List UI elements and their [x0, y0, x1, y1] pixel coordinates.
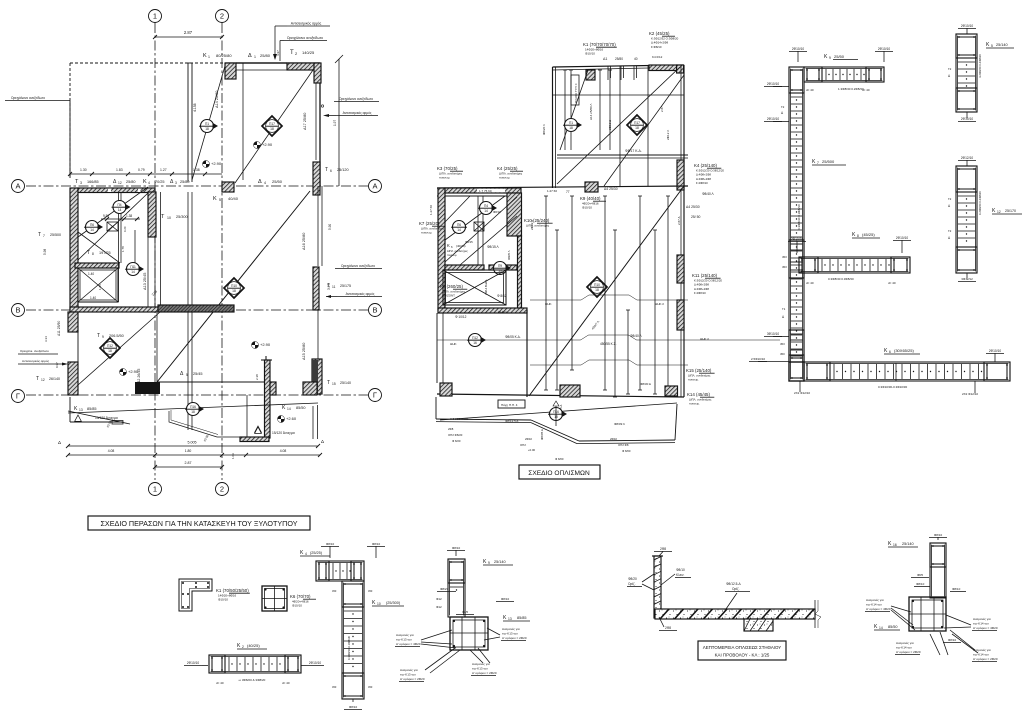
svg-text:2: 2: [242, 645, 244, 649]
svg-text:K14 (45/45): K14 (45/45): [687, 392, 710, 397]
svg-text:0.3Φ10/30-0.3Φ10/30: 0.3Φ10/30-0.3Φ10/30: [878, 385, 907, 389]
svg-text:Αντισεισμικός αρμός: Αντισεισμικός αρμός: [22, 359, 50, 363]
svg-text:2Φ10/10: 2Φ10/10: [187, 661, 200, 665]
svg-text:2Φ02: 2Φ02: [525, 437, 532, 441]
svg-text:70/25: 70/25: [155, 180, 165, 184]
svg-text:0.79: 0.79: [138, 168, 145, 172]
svg-text:11: 11: [332, 285, 336, 289]
svg-text:40/40: 40/40: [228, 196, 239, 201]
svg-text:Α′ ορόφου = 4Φ20: Α′ ορόφου = 4Φ20: [866, 607, 891, 611]
svg-text:2Φ12 Δ: 2Φ12 Δ: [608, 120, 612, 130]
svg-text:2Φ12/10: 2Φ12/10: [961, 156, 974, 160]
svg-text:6: 6: [889, 350, 891, 354]
svg-text:Σ:Φ8/10: Σ:Φ8/10: [651, 45, 662, 49]
svg-text:9: 9: [102, 335, 104, 339]
svg-text:1.3Φ8/30 0.2Φ8/30: 1.3Φ8/30 0.2Φ8/30: [838, 87, 864, 91]
svg-text:2Χ2 Φ12/10: 2Χ2 Φ12/10: [962, 392, 978, 396]
svg-text:Φ8/17 Κ.Δ.: Φ8/17 Κ.Δ.: [625, 149, 642, 153]
svg-text:0.97: 0.97: [55, 362, 59, 368]
svg-text:197/25: 197/25: [99, 251, 111, 255]
svg-text:d= 40: d= 40: [806, 88, 814, 92]
svg-text:1.78: 1.78: [121, 246, 125, 252]
svg-text:453: 453: [782, 255, 787, 259]
svg-text:10: 10: [167, 216, 171, 220]
svg-text:Π10: Π10: [594, 283, 600, 287]
svg-text:Κ.Σ 2Φ8 πινακ: Κ.Σ 2Φ8 πινακ: [450, 417, 469, 421]
svg-text:85/85: 85/85: [87, 407, 97, 411]
svg-text:Π4: Π4: [117, 203, 121, 207]
svg-text:12: 12: [41, 378, 45, 382]
svg-text:3.34: 3.34: [44, 336, 48, 342]
svg-text:Φ8/5: Φ8/5: [917, 573, 924, 577]
svg-text:(25/300): (25/300): [386, 601, 401, 605]
svg-text:25/50: 25/50: [272, 179, 283, 184]
svg-text:Π6: Π6: [457, 223, 461, 227]
svg-text:Α′ ορόφου = 2Φ20: Α′ ορόφου = 2Φ20: [502, 636, 527, 640]
svg-text:d= 40: d= 40: [282, 681, 290, 685]
svg-text:8: 8: [92, 252, 94, 256]
svg-text:2Φ02 Δ: 2Φ02 Δ: [530, 220, 534, 230]
svg-text:d= 40: d= 40: [216, 681, 224, 685]
svg-text:Γ2: Γ2: [781, 105, 785, 109]
svg-text:1: 1: [153, 485, 157, 494]
svg-text:5.005: 5.005: [188, 441, 197, 445]
svg-text:Αναμονές για: Αναμονές για: [400, 668, 418, 672]
svg-text:K7 (25/20): K7 (25/20): [419, 221, 440, 226]
svg-text:2Φ12 Λ: 2Φ12 Λ: [666, 130, 670, 140]
svg-text:T: T: [38, 232, 41, 238]
svg-text:Φ 8/20: Φ 8/20: [452, 439, 461, 443]
svg-text:40: 40: [634, 57, 638, 61]
svg-text:Φ 8/00: Φ 8/00: [622, 449, 631, 453]
svg-text:Αναμονές για: Αναμονές για: [896, 641, 914, 645]
svg-text:Π6: Π6: [90, 223, 94, 227]
svg-text:+2.90: +2.90: [260, 342, 271, 347]
svg-text:25/45: 25/45: [193, 372, 203, 376]
svg-text:T: T: [327, 283, 330, 289]
svg-text:ΠΛΑΚΑ ΤΥΠ Χ: ΠΛΑΚΑ ΤΥΠ Χ: [574, 83, 578, 103]
svg-text:0.2Φ8/20 0.2Φ8/20: 0.2Φ8/20 0.2Φ8/20: [978, 191, 982, 215]
svg-text:25/120: 25/120: [337, 168, 349, 172]
svg-text:την Κ14 του: την Κ14 του: [866, 603, 882, 607]
svg-text:Π17: Π17: [269, 122, 275, 126]
svg-text:K8 (260/25): K8 (260/25): [440, 284, 463, 289]
svg-text:ΟΠΛ Φ8/20: ΟΠΛ Φ8/20: [448, 433, 463, 437]
svg-text:ω 3Φ8/20 & 3Φ8/20: ω 3Φ8/20 & 3Φ8/20: [239, 678, 266, 682]
svg-text:77: 77: [566, 190, 570, 194]
svg-text:Φ8/10: Φ8/10: [952, 587, 961, 591]
svg-text:9: 9: [829, 56, 831, 60]
svg-text:2.87: 2.87: [185, 461, 192, 465]
svg-text:Σ:4Φ8/10: Σ:4Φ8/10: [696, 181, 708, 185]
svg-text:7: 7: [43, 234, 45, 238]
svg-text:9: 9: [488, 561, 490, 565]
svg-text:Δ15 25/80: Δ15 25/80: [302, 343, 306, 360]
svg-text:+2.90: +2.90: [262, 142, 273, 147]
svg-text:2: 2: [220, 12, 224, 21]
svg-text:15/120 Άνοιγμα: 15/120 Άνοιγμα: [272, 431, 295, 435]
svg-text:A: A: [15, 182, 20, 191]
svg-text:(30Χ65/25): (30Χ65/25): [894, 348, 914, 353]
svg-text:την Κ14 του: την Κ14 του: [973, 653, 989, 657]
svg-text:1.83: 1.83: [116, 168, 123, 172]
svg-text:2Φ8 Δ ΒΗΔ Α: 2Φ8 Δ ΒΗΔ Α: [484, 279, 488, 295]
svg-text:Φ10/10: Φ10/10: [582, 206, 592, 210]
svg-text:4: 4: [148, 181, 150, 185]
svg-text:25/140: 25/140: [340, 381, 351, 385]
svg-text:4.2Φ8/20 0.2Φ8/20: 4.2Φ8/20 0.2Φ8/20: [978, 54, 982, 78]
svg-text:14: 14: [287, 407, 291, 411]
svg-text:πυκνωμ.: πυκνωμ.: [688, 378, 699, 382]
svg-text:Π10: Π10: [231, 284, 237, 288]
svg-text:2Φ10/10: 2Φ10/10: [791, 237, 804, 241]
svg-text:Φ8/10: Φ8/10: [501, 597, 510, 601]
svg-text:1.7 75 60: 1.7 75 60: [479, 189, 492, 193]
svg-text:Φ8/12.5 Δ: Φ8/12.5 Δ: [505, 419, 518, 423]
svg-text:την Κ13 του: την Κ13 του: [502, 632, 518, 636]
svg-text:Φ8/10: Φ8/10: [452, 546, 461, 550]
svg-text:T: T: [290, 50, 294, 56]
svg-text:1.40: 1.40: [90, 296, 96, 300]
svg-text:(45/25): (45/25): [862, 232, 875, 237]
svg-text:ΣΧΕΔΙΟ ΠΕΡΑΣΩΝ ΓΙΑ ΤΗΝ ΚΑΤ: ΣΧΕΔΙΟ ΠΕΡΑΣΩΝ ΓΙΑ ΤΗΝ ΚΑΤΑΣΚΕΥΗ ΤΟΥ ΞΥΛ…: [100, 519, 297, 528]
svg-text:Π12: Π12: [472, 336, 478, 340]
svg-text:Ορειχάλκινο ανοξείδωτο: Ορειχάλκινο ανοξείδωτο: [339, 97, 373, 101]
svg-text:την Κ13 του: την Κ13 του: [400, 673, 416, 677]
svg-text:ΟΡΙΖΟΝΤ.: ΟΡΙΖΟΝΤ.: [442, 294, 456, 298]
svg-text:4: 4: [305, 552, 307, 556]
svg-text:ΟΠΛ: ΟΠΛ: [520, 443, 526, 447]
svg-text:1.97: 1.97: [333, 120, 337, 126]
svg-text:Γ1: Γ1: [782, 307, 786, 311]
svg-text:18: 18: [232, 289, 236, 293]
svg-text:A: A: [372, 182, 377, 191]
svg-text:80/25/80: 80/25/80: [216, 53, 232, 58]
svg-text:25/500: 25/500: [50, 233, 61, 237]
svg-text:16: 16: [893, 543, 897, 547]
svg-text:26/140: 26/140: [49, 377, 60, 381]
svg-text:Αναμονές για: Αναμονές για: [502, 627, 520, 631]
svg-text:T: T: [327, 380, 330, 386]
svg-text:ΘΗΚ: ΘΗΚ: [450, 342, 457, 346]
svg-text:25/80: 25/80: [260, 53, 271, 58]
svg-text:Α′ ορόφου = 2Φ20: Α′ ορόφου = 2Φ20: [472, 671, 497, 675]
svg-text:K6 (70/70): K6 (70/70): [290, 594, 311, 599]
svg-text:Α′ ορόφου = 2Φ20: Α′ ορόφου = 2Φ20: [896, 650, 921, 654]
svg-text:K15 (25/140): K15 (25/140): [686, 368, 712, 373]
svg-text:5.98: 5.98: [43, 249, 47, 255]
svg-text:Φ8/20 Λ: Φ8/20 Λ: [542, 124, 546, 135]
svg-text:την Κ13 του: την Κ13 του: [472, 667, 488, 671]
svg-text:ΘΗΚ: ΘΗΚ: [545, 302, 552, 306]
svg-text:Φ8/15 Λ: Φ8/15 Λ: [487, 245, 499, 249]
svg-text:2Φ8: 2Φ8: [660, 547, 666, 551]
svg-text:Φ 8/00: Φ 8/00: [555, 457, 564, 461]
svg-text:B: B: [15, 306, 20, 315]
svg-text:25/80: 25/80: [126, 180, 136, 184]
svg-text:Γ2: Γ2: [948, 67, 952, 71]
svg-text:2.5Φ10/10: 2.5Φ10/10: [751, 357, 765, 361]
svg-text:Γ: Γ: [16, 392, 20, 401]
svg-text:453: 453: [368, 589, 373, 593]
svg-text:Αναμονές για: Αναμονές για: [973, 617, 991, 621]
svg-text:Δ: Δ: [258, 179, 262, 185]
svg-text:(40/25): (40/25): [247, 643, 260, 648]
svg-text:0.3Φ8/30-0.3Φ8/30: 0.3Φ8/30-0.3Φ8/30: [347, 635, 351, 660]
svg-text:2.87 Δ: 2.87 Δ: [677, 216, 681, 225]
svg-text:25/80: 25/80: [180, 180, 190, 184]
svg-text:Αναμονές για: Αναμονές για: [472, 662, 490, 666]
svg-text:Ορειχάλκινο ανοξείδωτο: Ορειχάλκινο ανοξείδωτο: [11, 96, 45, 100]
svg-text:K2 (45/25): K2 (45/25): [649, 31, 670, 36]
svg-text:2.38: 2.38: [255, 374, 259, 380]
svg-text:Φ8/12.5-Δ: Φ8/12.5-Δ: [726, 582, 741, 586]
svg-text:Α′ ορόφου = 2Φ20: Α′ ορόφου = 2Φ20: [400, 677, 425, 681]
svg-text:8: 8: [857, 234, 859, 238]
svg-text:K1 (70/70/70/70): K1 (70/70/70/70): [583, 42, 616, 47]
svg-text:Π1: Π1: [205, 122, 209, 126]
svg-text:1.27 60: 1.27 60: [547, 189, 557, 193]
svg-text:K11 (25/140): K11 (25/140): [692, 273, 718, 278]
svg-text:25/140: 25/140: [996, 43, 1008, 47]
svg-text:25/140: 25/140: [902, 542, 914, 546]
svg-text:2Χ2 Φ12/10: 2Χ2 Φ12/10: [794, 391, 810, 395]
svg-text:T: T: [97, 333, 100, 339]
svg-text:Φ8/40 Λ: Φ8/40 Λ: [630, 334, 642, 338]
svg-text:Κλειν.: Κλειν.: [676, 573, 684, 577]
svg-text:4.97: 4.97: [276, 50, 280, 56]
svg-text:450/55 Κ.Σ.: 450/55 Κ.Σ.: [600, 342, 617, 346]
svg-text:1.03: 1.03: [231, 453, 235, 459]
svg-text:Αντισεισμικός αρμός: Αντισεισμικός αρμός: [346, 292, 375, 296]
svg-text:T: T: [36, 376, 39, 382]
svg-text:ΘΗΚ Λ: ΘΗΚ Λ: [700, 337, 709, 341]
svg-text:Δ11 25/90: Δ11 25/90: [57, 321, 61, 336]
svg-text:+0.00: +0.00: [528, 448, 536, 452]
svg-text:Φ8/10: Φ8/10: [676, 568, 685, 572]
svg-text:85/50: 85/50: [296, 406, 306, 410]
svg-text:K1 (70/50/25/50): K1 (70/50/25/50): [216, 588, 249, 593]
svg-text:2Φ10/10: 2Φ10/10: [309, 661, 322, 665]
svg-text:Φ8/5: Φ8/5: [462, 610, 469, 614]
svg-text:d= 40: d= 40: [806, 281, 814, 285]
svg-text:2.87: 2.87: [184, 30, 193, 35]
svg-text:1.80: 1.80: [185, 449, 192, 453]
svg-text:ΟΠΛ Φ8: ΟΠΛ Φ8: [618, 443, 629, 447]
svg-text:14: 14: [879, 626, 883, 630]
svg-text:6: 6: [330, 169, 332, 173]
svg-text:14: 14: [90, 228, 94, 232]
svg-text:K4 (25/140): K4 (25/140): [694, 163, 717, 168]
svg-text:453: 453: [332, 685, 337, 689]
svg-text:Φ8/10: Φ8/10: [948, 638, 957, 642]
svg-text:Αντισεισμικός αρμός: Αντισεισμικός αρμός: [343, 111, 372, 115]
svg-text:14: 14: [484, 209, 488, 213]
svg-text:14: 14: [118, 208, 122, 212]
svg-text:166/85: 166/85: [87, 180, 99, 184]
svg-text:450: 450: [780, 352, 785, 356]
svg-text:Ορειχάλκινο ανοξείδωτο: Ορειχάλκινο ανοξείδωτο: [341, 264, 375, 268]
svg-text:2Φ10/10: 2Φ10/10: [792, 47, 805, 51]
svg-text:2Φ10/10: 2Φ10/10: [878, 47, 891, 51]
svg-text:16: 16: [473, 341, 477, 345]
svg-text:Δ17 25/80: Δ17 25/80: [303, 113, 307, 130]
svg-text:453: 453: [368, 685, 373, 689]
svg-text:πυκνωμ.: πυκνωμ.: [447, 253, 457, 257]
svg-text:πυκνωμ.: πυκνωμ.: [689, 402, 700, 406]
svg-text:1: 1: [153, 12, 157, 21]
svg-text:25/500: 25/500: [822, 159, 835, 164]
svg-text:Πάχη Π.Π. 4: Πάχη Π.Π. 4: [501, 403, 518, 407]
svg-text:Ορειχαλκ. ανοξείδωτο: Ορειχαλκ. ανοξείδωτο: [20, 349, 49, 353]
svg-text:1.38: 1.38: [126, 214, 132, 218]
svg-text:12: 12: [997, 210, 1001, 214]
svg-text:85/85: 85/85: [517, 616, 527, 620]
svg-text:T: T: [325, 167, 328, 173]
svg-text:10: 10: [377, 602, 381, 606]
svg-text:1.27: 1.27: [160, 168, 167, 172]
svg-text:2Φ10/10: 2Φ10/10: [767, 117, 780, 121]
svg-text:2Φ10/10: 2Φ10/10: [961, 24, 974, 28]
svg-text:ΟρΙζ.: ΟρΙζ.: [628, 582, 636, 586]
svg-text:18: 18: [108, 349, 112, 353]
svg-text:Δ: Δ: [321, 439, 324, 444]
svg-text:Α′ ορόφου = 2Φ20: Α′ ορόφου = 2Φ20: [973, 657, 998, 661]
svg-text:ΘΗΚΩ: ΘΗΚΩ: [498, 310, 508, 314]
svg-text:1.38: 1.38: [193, 168, 200, 172]
svg-text:ΟρΙζ.: ΟρΙζ.: [732, 587, 740, 591]
svg-text:14: 14: [131, 270, 135, 274]
svg-text:25/140: 25/140: [494, 560, 506, 564]
svg-text:Αντισεισμικός αρμός: Αντισεισμικός αρμός: [291, 22, 322, 26]
svg-text:Α′ ορόφου = 4Φ20: Α′ ορόφου = 4Φ20: [396, 642, 421, 646]
svg-text:ΔΙΠΛ. συνδετήρες: ΔΙΠΛ. συνδετήρες: [447, 249, 469, 253]
svg-text:18: 18: [595, 288, 599, 292]
svg-text:Φ8/10: Φ8/10: [934, 533, 943, 537]
svg-text:2.87: 2.87: [660, 106, 664, 112]
svg-text:(40/40): (40/40): [456, 244, 466, 248]
svg-text:B: B: [372, 306, 377, 315]
svg-text:Π11: Π11: [130, 265, 136, 269]
svg-text:Φ8/10: Φ8/10: [349, 705, 358, 709]
svg-text:Φ8/20: Φ8/20: [628, 577, 637, 581]
svg-text:25/80: 25/80: [615, 57, 623, 61]
svg-text:453: 453: [780, 342, 785, 346]
svg-text:Φ12: Φ12: [436, 597, 442, 601]
svg-text:την Κ14 του: την Κ14 του: [896, 646, 912, 650]
svg-text:7: 7: [817, 161, 819, 165]
svg-text:Σ:4Φ8/10: Σ:4Φ8/10: [694, 291, 706, 295]
svg-text:Π9: Π9: [498, 264, 502, 268]
svg-text:d= 40: d= 40: [888, 281, 896, 285]
svg-text:2Φ10/10: 2Φ10/10: [767, 82, 780, 86]
svg-text:3: 3: [80, 181, 82, 185]
svg-text:+2.60: +2.60: [286, 416, 297, 421]
svg-text:T: T: [87, 250, 90, 256]
svg-text:453: 453: [782, 265, 787, 269]
svg-text:Δ: Δ: [248, 53, 252, 59]
svg-text:1.65: 1.65: [98, 284, 102, 290]
svg-text:πυκνωμ.: πυκνωμ.: [499, 176, 510, 180]
svg-text:Φ8/05 Κ.Δ.: Φ8/05 Κ.Δ.: [505, 335, 521, 339]
svg-text:K: K: [203, 53, 207, 59]
svg-text:0.3Φ8/30 0.3Φ8/30: 0.3Φ8/30 0.3Φ8/30: [828, 277, 854, 281]
svg-text:K4 (25/25): K4 (25/25): [497, 166, 518, 171]
svg-text:85/50: 85/50: [888, 625, 898, 629]
svg-text:Φ8/25 Λ: Φ8/25 Λ: [507, 250, 511, 260]
svg-text:Φ8/10: Φ8/10: [326, 542, 335, 546]
svg-text:την Κ14 του: την Κ14 του: [973, 622, 989, 626]
svg-text:206.5/50: 206.5/50: [109, 334, 124, 338]
svg-text:14: 14: [457, 228, 461, 232]
svg-text:Δ16 25/80: Δ16 25/80: [302, 233, 306, 250]
svg-text:3: 3: [175, 181, 177, 185]
svg-text:Δ4 25/30: Δ4 25/30: [686, 205, 700, 209]
svg-text:Α′ ορόφου = 4Φ20: Α′ ορόφου = 4Φ20: [973, 626, 998, 630]
svg-text:4.08: 4.08: [280, 449, 287, 453]
svg-text:Αναμονές για: Αναμονές για: [396, 633, 414, 637]
svg-text:+2.90: +2.90: [211, 161, 222, 166]
svg-text:ΚΑΙ ΠΡΟΒΟΛΟΥ - ΚΛ : 1/25: ΚΑΙ ΠΡΟΒΟΛΟΥ - ΚΛ : 1/25: [715, 653, 770, 658]
svg-text:5: 5: [186, 373, 188, 377]
svg-text:2Φ8: 2Φ8: [448, 427, 454, 431]
svg-text:K9 (40/40): K9 (40/40): [580, 196, 601, 201]
svg-text:140/25: 140/25: [302, 50, 315, 55]
svg-text:Δ14 25/80 Λ: Δ14 25/80 Λ: [589, 104, 593, 120]
svg-text:Αναμονές για: Αναμονές για: [866, 598, 884, 602]
svg-text:15: 15: [332, 382, 336, 386]
svg-text:την Κ13 του: την Κ13 του: [396, 638, 412, 642]
svg-text:Φ8/23: Φ8/23: [440, 587, 449, 591]
svg-text:Φ8/10: Φ8/10: [493, 210, 501, 214]
svg-text:4: 4: [264, 181, 266, 185]
svg-text:Φ12: Φ12: [436, 605, 442, 609]
svg-text:5: 5: [219, 198, 221, 202]
svg-text:Φ 8/12: Φ 8/12: [497, 294, 507, 298]
svg-text:Δ14 25/80: Δ14 25/80: [215, 91, 219, 108]
svg-text:Π12: Π12: [107, 344, 113, 348]
svg-text:18: 18: [205, 127, 209, 131]
svg-text:Γ: Γ: [373, 391, 377, 400]
svg-text:Κ4 0/12: Κ4 0/12: [652, 55, 663, 59]
svg-text:Δ13 25/45: Δ13 25/45: [143, 273, 147, 290]
svg-text:4.08: 4.08: [108, 449, 115, 453]
svg-text:2Φ10/10: 2Φ10/10: [896, 236, 909, 240]
svg-text:ΣΧΕΔΙΟ ΟΠΛΙΣΜΩΝ: ΣΧΕΔΙΟ ΟΠΛΙΣΜΩΝ: [528, 470, 590, 477]
svg-text:K3 (70/25): K3 (70/25): [437, 166, 458, 171]
svg-text:Φ8/40 Λ: Φ8/40 Λ: [702, 192, 714, 196]
svg-text:Φ8/15: Φ8/15: [465, 240, 473, 244]
svg-text:12: 12: [118, 181, 122, 185]
svg-text:1: 1: [254, 55, 256, 59]
svg-text:ΛΕΠΤΟΜΕΡΕΙΑ ΟΠΛΙΣΕΩΣ ΣΤΗΘΑΙΟΥ: ΛΕΠΤΟΜΕΡΕΙΑ ΟΠΛΙΣΕΩΣ ΣΤΗΘΑΙΟΥ: [703, 645, 782, 650]
svg-text:18: 18: [191, 410, 195, 414]
svg-text:Δ: Δ: [58, 440, 61, 445]
svg-text:2Φ02: 2Φ02: [610, 437, 617, 441]
svg-text:25/175: 25/175: [340, 284, 351, 288]
svg-text:453: 453: [332, 589, 337, 593]
svg-text:K: K: [143, 179, 147, 185]
svg-text:25/50: 25/50: [834, 54, 845, 59]
svg-text:Φ10/10: Φ10/10: [292, 604, 302, 608]
svg-text:18: 18: [635, 126, 639, 130]
svg-text:Δ4 25/30: Δ4 25/30: [604, 187, 618, 191]
svg-text:18: 18: [569, 126, 573, 130]
svg-text:Γ2: Γ2: [948, 197, 952, 201]
svg-text:13: 13: [79, 408, 83, 412]
svg-text:πυκνωμ.: πυκνωμ.: [421, 231, 432, 235]
svg-text:Ορειχάλκινο ανοξείδωτο: Ορειχάλκινο ανοξείδωτο: [287, 36, 323, 40]
